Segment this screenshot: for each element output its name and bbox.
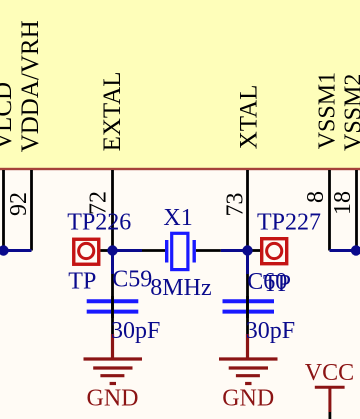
svg-text:TP226: TP226: [67, 210, 131, 236]
svg-text:30pF: 30pF: [111, 318, 160, 344]
svg-text:VCC: VCC: [305, 360, 354, 386]
svg-text:TP227: TP227: [257, 210, 321, 236]
svg-text:VDDA/VRH: VDDA/VRH: [17, 20, 44, 152]
svg-text:XTAL: XTAL: [236, 85, 263, 150]
svg-text:VSSM2: VSSM2: [341, 74, 360, 151]
svg-text:GND: GND: [222, 385, 274, 411]
svg-text:8: 8: [303, 191, 329, 203]
svg-text:8MHz: 8MHz: [150, 275, 211, 301]
svg-text:X1: X1: [163, 205, 192, 231]
svg-text:TP: TP: [68, 269, 96, 295]
svg-text:73: 73: [223, 193, 249, 217]
svg-text:30pF: 30pF: [246, 318, 295, 344]
svg-text:VSSM1: VSSM1: [315, 72, 341, 149]
svg-text:18: 18: [330, 191, 356, 215]
svg-text:EXTAL: EXTAL: [99, 71, 126, 151]
svg-text:VLCD: VLCD: [0, 82, 17, 150]
svg-text:TP: TP: [263, 271, 291, 297]
svg-text:92: 92: [6, 192, 32, 216]
svg-text:C59: C59: [112, 267, 152, 293]
svg-text:GND: GND: [87, 385, 139, 411]
